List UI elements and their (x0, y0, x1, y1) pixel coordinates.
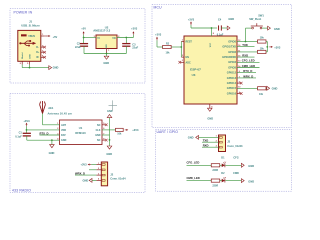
svg-text:U3: U3 (192, 73, 196, 77)
svg-text:GND: GND (106, 44, 108, 49)
svg-text:UART / GPIO: UART / GPIO (157, 130, 179, 134)
svg-text:22uF: 22uF (75, 46, 81, 49)
svg-text:GND: GND (29, 54, 31, 59)
svg-text:10k: 10k (260, 47, 265, 50)
svg-text:VBUS: VBUS (28, 35, 35, 38)
svg-text:GND: GND (228, 17, 234, 21)
svg-text:Conn_01x03: Conn_01x03 (227, 144, 243, 148)
svg-text:AE1: AE1 (48, 106, 54, 110)
svg-text:GND: GND (53, 66, 59, 70)
svg-text:REST: REST (186, 41, 193, 44)
svg-text:SW1: SW1 (258, 14, 264, 18)
svg-text:10k: 10k (117, 133, 122, 136)
svg-text:GPIO3/RXD: GPIO3/RXD (222, 55, 236, 59)
svg-text:CFG: CFG (233, 157, 238, 160)
svg-text:+3V3: +3V3 (80, 163, 87, 167)
svg-text:10k: 10k (259, 93, 264, 96)
svg-text:GPIO4: GPIO4 (228, 60, 236, 64)
svg-text:+3V3: +3V3 (132, 128, 139, 132)
svg-text:GND: GND (107, 110, 113, 113)
svg-text:CFG_LED: CFG_LED (242, 59, 255, 63)
svg-text:220R: 220R (212, 184, 218, 187)
svg-text:WRX_D: WRX_D (243, 74, 253, 78)
svg-text:CMD_LED: CMD_LED (242, 64, 255, 68)
svg-text:ANT: ANT (61, 124, 66, 127)
svg-text:GPIO2: GPIO2 (228, 50, 236, 54)
svg-text:WRX_D: WRX_D (75, 172, 85, 176)
svg-text:+5V: +5V (81, 27, 86, 31)
svg-text:GND: GND (83, 178, 89, 182)
svg-text:CMD_LED: CMD_LED (187, 176, 200, 180)
svg-text:RTX_D: RTX_D (243, 69, 252, 73)
svg-text:GPIO1/TXD: GPIO1/TXD (222, 45, 236, 49)
svg-text:VDD: VDD (61, 129, 66, 132)
svg-text:U1: U1 (79, 126, 83, 130)
svg-text:0.1uF: 0.1uF (217, 33, 224, 36)
svg-text:VCC: VCC (210, 42, 212, 47)
svg-text:TXD: TXD (203, 139, 209, 143)
svg-text:+3V3: +3V3 (274, 46, 281, 50)
svg-text:GND: GND (207, 117, 213, 121)
svg-text:GND: GND (103, 61, 109, 65)
svg-text:10k: 10k (166, 51, 171, 54)
svg-text:DAT: DAT (61, 134, 66, 137)
svg-text:NC: NC (97, 124, 101, 127)
svg-text:GND: GND (106, 152, 112, 156)
svg-text:0.1uF: 0.1uF (15, 135, 22, 138)
svg-text:NC: NC (97, 139, 101, 142)
svg-text:EN: EN (186, 56, 190, 59)
svg-text:CLK: CLK (96, 129, 101, 132)
svg-text:22uF: 22uF (132, 46, 138, 49)
svg-text:10k: 10k (260, 37, 265, 40)
svg-text:+3V3: +3V3 (23, 119, 30, 123)
svg-text:USB_B_Micro: USB_B_Micro (21, 24, 40, 28)
svg-text:MCU: MCU (154, 6, 163, 10)
svg-text:RXD: RXD (242, 54, 248, 58)
svg-text:POWER IN: POWER IN (14, 11, 33, 15)
svg-text:+3V3: +3V3 (155, 33, 162, 37)
svg-text:CMD: CMD (233, 172, 239, 175)
svg-text:VI: VI (97, 37, 100, 40)
svg-text:ADC: ADC (186, 61, 191, 64)
svg-text:GPIO16: GPIO16 (227, 91, 237, 95)
svg-text:GND: GND (61, 139, 67, 142)
svg-text:GND: GND (95, 134, 101, 137)
svg-text:GPIO12: GPIO12 (227, 71, 237, 75)
svg-text:GND: GND (248, 164, 254, 168)
svg-text:GPIO15: GPIO15 (227, 86, 237, 90)
svg-text:AMS1117-3.3: AMS1117-3.3 (93, 29, 110, 33)
svg-text:GND: GND (274, 27, 280, 31)
svg-text:Shield: Shield (22, 52, 24, 59)
svg-text:Antenna 16.45 cm: Antenna 16.45 cm (48, 112, 73, 116)
svg-text:VO: VO (112, 37, 116, 40)
svg-text:ESP-07: ESP-07 (190, 68, 201, 72)
svg-text:TXD: TXD (242, 43, 248, 47)
svg-text:433 RADIO: 433 RADIO (12, 189, 31, 193)
svg-text:GND: GND (49, 151, 55, 155)
svg-text:CFG_LED: CFG_LED (187, 161, 200, 165)
svg-text:RFM110: RFM110 (75, 131, 86, 135)
svg-text:GND: GND (248, 179, 254, 183)
svg-text:ID: ID (36, 56, 39, 59)
svg-text:GND: GND (188, 135, 194, 139)
svg-text:SW_Push: SW_Push (249, 17, 261, 21)
svg-text:Conn_01x04: Conn_01x04 (110, 176, 126, 180)
svg-text:GND: GND (272, 86, 278, 90)
svg-text:220R: 220R (212, 169, 218, 172)
svg-text:RXD: RXD (203, 144, 209, 148)
svg-text:GPIO13: GPIO13 (227, 76, 237, 80)
svg-text:GPIO14: GPIO14 (227, 81, 237, 85)
svg-text:D-: D- (36, 46, 39, 49)
svg-text:GPIO5: GPIO5 (228, 65, 236, 69)
svg-text:+5V: +5V (53, 35, 58, 39)
svg-text:+3V3: +3V3 (131, 27, 138, 31)
svg-text:GPIO0: GPIO0 (228, 39, 236, 43)
svg-text:+3V3: +3V3 (188, 17, 195, 21)
